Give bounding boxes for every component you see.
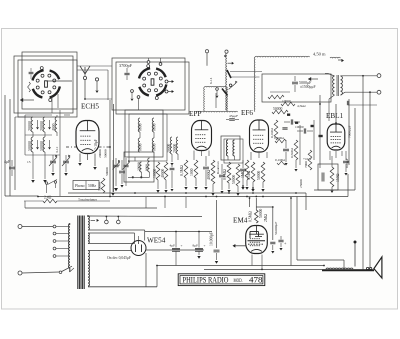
svg-text:8μF: 8μF bbox=[193, 244, 199, 248]
svg-text:5000μF: 5000μF bbox=[299, 80, 312, 85]
svg-text:1000: 1000 bbox=[190, 168, 194, 176]
svg-text:10000: 10000 bbox=[153, 169, 157, 178]
svg-text:50000: 50000 bbox=[105, 167, 109, 176]
svg-text:10.000pF: 10.000pF bbox=[210, 232, 214, 246]
svg-text:EM4: EM4 bbox=[233, 217, 248, 225]
svg-text:50000: 50000 bbox=[257, 171, 261, 180]
svg-text:0000: 0000 bbox=[139, 123, 143, 131]
svg-text:50000: 50000 bbox=[27, 141, 32, 151]
svg-text:50000: 50000 bbox=[232, 175, 236, 184]
svg-text:50000: 50000 bbox=[39, 141, 44, 151]
svg-text:6-14: 6-14 bbox=[117, 160, 121, 166]
svg-text:50000: 50000 bbox=[104, 149, 108, 158]
svg-text:50000: 50000 bbox=[273, 107, 282, 111]
svg-text:20000: 20000 bbox=[167, 144, 171, 153]
svg-text:+: + bbox=[204, 244, 206, 248]
svg-text:50000: 50000 bbox=[259, 209, 263, 218]
svg-text:25000: 25000 bbox=[299, 179, 303, 188]
svg-text:0000: 0000 bbox=[139, 143, 143, 151]
svg-text:±1500μμF: ±1500μμF bbox=[300, 85, 316, 89]
svg-text:ECH5: ECH5 bbox=[81, 103, 99, 111]
svg-text:20000: 20000 bbox=[39, 121, 44, 131]
svg-text:10000: 10000 bbox=[282, 99, 291, 103]
svg-text:2MΩ: 2MΩ bbox=[264, 214, 268, 222]
svg-text:15: 15 bbox=[27, 160, 31, 164]
svg-text:20000: 20000 bbox=[27, 121, 32, 131]
svg-text:20000: 20000 bbox=[173, 144, 177, 153]
svg-text:Phono: Phono bbox=[75, 184, 85, 188]
svg-text:50.000μF: 50.000μF bbox=[274, 222, 278, 235]
svg-text:7000μμF: 7000μμF bbox=[348, 125, 352, 138]
svg-text:4μF: 4μF bbox=[170, 244, 176, 248]
svg-text:0000: 0000 bbox=[153, 143, 157, 151]
svg-text:0000: 0000 bbox=[145, 164, 149, 171]
svg-text:3-12: 3-12 bbox=[55, 146, 59, 153]
svg-text:3700pF: 3700pF bbox=[119, 63, 133, 68]
svg-text:Raumton: Raumton bbox=[216, 161, 220, 174]
svg-text:WE54: WE54 bbox=[147, 237, 166, 245]
svg-text:EF6: EF6 bbox=[241, 109, 253, 117]
svg-text:50Hz: 50Hz bbox=[88, 184, 96, 188]
svg-text:10000: 10000 bbox=[295, 125, 304, 129]
svg-text:150Ω: 150Ω bbox=[336, 173, 340, 182]
svg-text:MOD.: MOD. bbox=[234, 278, 243, 284]
svg-text:4000: 4000 bbox=[52, 123, 56, 131]
svg-text:0000: 0000 bbox=[153, 123, 157, 131]
svg-text:EBL1: EBL1 bbox=[326, 112, 344, 120]
svg-text:20000: 20000 bbox=[98, 149, 102, 158]
svg-text:45μμF: 45μμF bbox=[229, 114, 238, 118]
svg-text:2-10μF: 2-10μF bbox=[94, 139, 98, 150]
svg-text:40000: 40000 bbox=[161, 169, 165, 178]
svg-text:Tonabnehmer: Tonabnehmer bbox=[78, 198, 98, 202]
svg-text:20000: 20000 bbox=[136, 162, 140, 171]
svg-text:7000: 7000 bbox=[304, 161, 308, 168]
svg-text:6-14: 6-14 bbox=[209, 77, 213, 84]
svg-text:PHILIPS RADIO: PHILIPS RADIO bbox=[183, 275, 229, 284]
svg-text:4μF: 4μF bbox=[4, 159, 11, 164]
svg-text:4000Ω: 4000Ω bbox=[207, 170, 211, 180]
svg-text:+: + bbox=[181, 244, 183, 248]
svg-text:478: 478 bbox=[249, 276, 262, 285]
